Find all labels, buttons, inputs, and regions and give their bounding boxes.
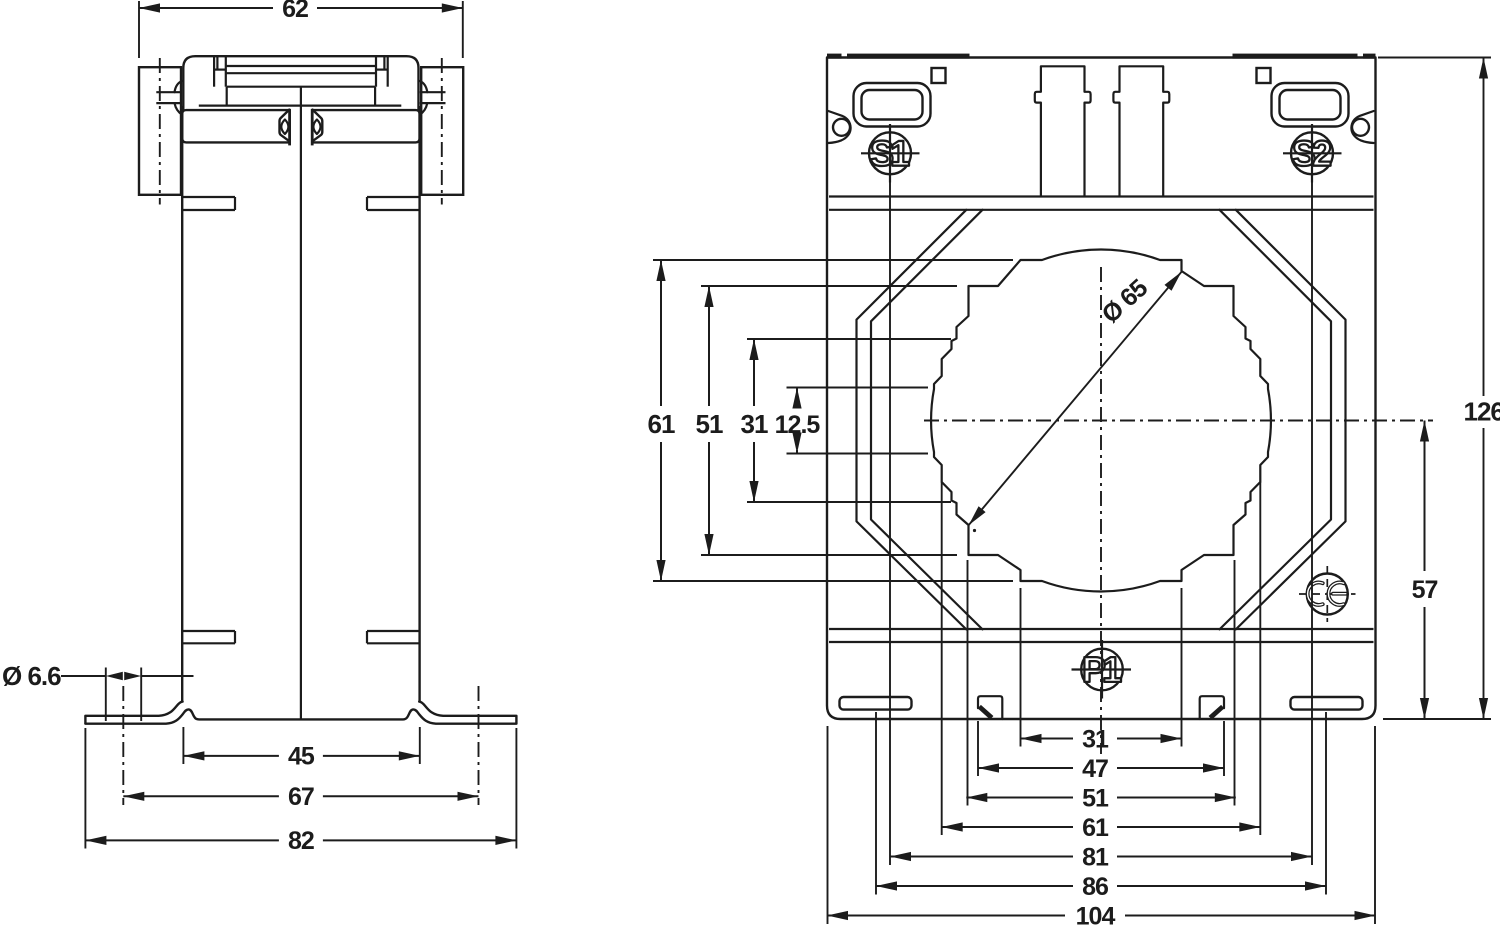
left view: dimension 82 [85, 839, 279, 841]
front view: dimension 61 vertical [660, 260, 662, 406]
front view: top cover lip left [827, 54, 842, 59]
left view: dimension 62 extension lines [138, 1, 140, 58]
front view: right foot slot [1291, 697, 1363, 710]
front view: P1 marker [1081, 649, 1123, 691]
svg-text:82: 82 [288, 827, 314, 855]
front view: right DIN clip slot [1200, 696, 1224, 719]
front view: height 61 extension lines [653, 259, 1013, 261]
svg-text:47: 47 [1082, 755, 1108, 783]
svg-text:67: 67 [288, 783, 314, 811]
left view: dimension 45 extension lines [182, 727, 184, 764]
left view: cap right screw slot [387, 56, 389, 86]
left view: right side plate [421, 67, 463, 195]
svg-text:57: 57 [1412, 576, 1438, 604]
front view: dimension 47 [978, 767, 1073, 769]
left view: left eye retainer [288, 109, 291, 145]
svg-text:61: 61 [1082, 814, 1109, 842]
front view: dimension 126 extension top [1378, 57, 1491, 59]
front view: chain ext 104 [827, 726, 829, 924]
front view: dimension 31 vertical [753, 339, 755, 406]
left view: lower right rib slot [367, 630, 419, 632]
front view: aperture diameter arrow [969, 272, 1182, 525]
front view: dimension 61 [942, 826, 1073, 828]
front view: left busbar terminal post [1035, 66, 1091, 196]
front view: stepped conductor aperture [931, 249, 1271, 591]
front view: dimension 57 [1424, 421, 1426, 572]
svg-text:81: 81 [1082, 843, 1109, 871]
front view: dimension 104 [827, 915, 1065, 917]
front view: height 31 extension lines [747, 338, 951, 340]
front view: terminal cover seam lower [829, 209, 1374, 211]
front view: right indicator square [1257, 68, 1271, 83]
left view: upper right rib slot [367, 196, 419, 198]
front view: terminal cover seam upper [829, 195, 1374, 197]
front view: left indicator square [932, 68, 946, 83]
left view: clamp busbar lower line [226, 72, 376, 74]
left view: left eye [281, 120, 288, 135]
left view: top clamp cap outline [183, 56, 418, 110]
left view: hole dimension leader [61, 675, 106, 677]
svg-text:104: 104 [1076, 902, 1116, 925]
left view: upper band left half [182, 110, 289, 142]
front view: S2 terminal slot outer [1272, 83, 1349, 127]
front view: vertical centerline [1100, 267, 1102, 754]
front view: height 12.5 extension lines [787, 387, 929, 389]
front view: dimension 51 vertical [708, 286, 710, 406]
front view: dimension 51 [966, 797, 1073, 799]
front view: height 51 extension lines [701, 285, 957, 287]
svg-text:31: 31 [741, 409, 768, 439]
left view: left clamp screw [156, 91, 182, 93]
left view: clamp busbar top line [226, 65, 376, 67]
svg-text:62: 62 [282, 0, 308, 23]
left view: dimension 62 [139, 7, 273, 9]
left view: cap left screw slot [213, 56, 215, 86]
left view: body left edge [181, 106, 183, 702]
front view: left DIN clip slot [978, 696, 1002, 719]
front view: octagon boss inner left [871, 210, 983, 630]
front view: chain ext 51 [967, 560, 969, 806]
svg-text:Ø 6.6: Ø 6.6 [2, 661, 61, 691]
svg-text:12.5: 12.5 [775, 411, 821, 439]
front view: S1 terminal slot inner [862, 90, 923, 120]
front view: dimension 126 [1483, 58, 1485, 397]
front view: dimension 31 [1021, 738, 1074, 740]
front view: dimension 81 [890, 856, 1073, 858]
front view: S1 terminal slot outer [854, 83, 931, 127]
svg-text:51: 51 [1082, 784, 1109, 812]
front view: lower seam lower line [829, 641, 1374, 643]
front view: dimension 12.5 vertical [796, 388, 798, 399]
left view: upper band right half [312, 110, 419, 142]
left view: right plate centerline [441, 58, 443, 205]
front view: chain ext 61 [941, 482, 943, 835]
front view: screw S1 [869, 132, 911, 174]
svg-text:61: 61 [648, 409, 675, 439]
front view: chain ext 86 [875, 712, 877, 895]
front view: lower seam upper line [829, 628, 1374, 630]
left view: upper left rib slot [183, 196, 235, 198]
left view: body center split line [300, 87, 302, 720]
front view: chain ext 47 [977, 721, 979, 776]
front view: octagon boss inner right [1220, 210, 1332, 630]
front view: S2 terminal slot inner [1280, 90, 1341, 120]
front view: left seal ear [828, 111, 850, 143]
left view: dimension 67 [123, 795, 279, 797]
left view: right eye retainer [311, 109, 314, 145]
front view: octagon boss outer left [857, 210, 967, 630]
front view: reference dot [973, 529, 976, 532]
front view: left foot slot [840, 697, 912, 710]
left view: dimension 45 [183, 755, 279, 757]
svg-text:51: 51 [696, 409, 723, 439]
front view: chain ext 81 [889, 183, 891, 866]
left view: lower left rib slot [183, 630, 235, 632]
front view: right busbar terminal post [1113, 66, 1169, 196]
svg-text:31: 31 [1082, 725, 1109, 753]
front view: octagon boss outer right [1236, 210, 1346, 630]
front view: CE mark [1307, 574, 1348, 615]
left view: mounting foot [85, 702, 182, 716]
front view: dimension 86 [876, 885, 1073, 887]
front view: horizontal centerline [924, 420, 1433, 422]
left view: dimension 82 extension lines [84, 728, 86, 849]
left view: left foot hole centerline [122, 686, 124, 805]
left view: left side plate [139, 67, 181, 195]
front view: chain ext 31 [1020, 588, 1022, 747]
front view: screw S2 [1291, 132, 1333, 174]
svg-text:86: 86 [1082, 873, 1108, 901]
left view: cap inner bottom line [199, 104, 401, 106]
front view: body outline [827, 58, 1376, 720]
left view: body right edge [418, 106, 420, 702]
svg-text:126: 126 [1464, 397, 1500, 427]
left view: clamp bar bottom edge [227, 86, 375, 88]
front view: bottom extension line [1383, 718, 1491, 720]
left view: right eye [313, 120, 320, 135]
svg-text:45: 45 [288, 743, 315, 771]
left view: right clamp screw [420, 91, 446, 93]
front view: right seal ear [1351, 111, 1373, 143]
left view: left plate centerline [159, 58, 161, 205]
left view: right foot hole centerline [478, 686, 480, 805]
front view: top cover lip right [1233, 54, 1358, 59]
